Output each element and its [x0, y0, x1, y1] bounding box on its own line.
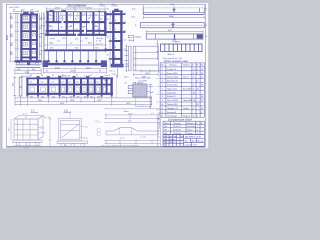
svg-text:24: 24	[197, 88, 199, 90]
svg-text:Петров: Петров	[170, 142, 175, 144]
cabinet base bottom	[16, 67, 41, 69]
svg-text:12: 12	[90, 75, 92, 77]
sheet	[2, 3, 209, 148]
iso2 inner horizontals	[60, 124, 79, 126]
svg-text:Узел 1: Узел 1	[109, 71, 116, 73]
svg-text:дет. 2: дет. 2	[66, 111, 72, 113]
svg-text:6: 6	[197, 116, 198, 118]
cabinet left rail	[20, 14, 22, 62]
svg-text:с2: с2	[32, 64, 34, 66]
iso2 leader	[69, 113, 71, 119]
beam1 center anchor	[173, 8, 175, 12]
svg-text:1:20: 1:20	[193, 145, 197, 147]
svg-text:8: 8	[201, 112, 202, 114]
ladder top cap	[112, 10, 123, 12]
ladder left stub 1	[106, 13, 112, 15]
mid assembly narrow left member	[19, 77, 22, 96]
side view light rectangle	[124, 46, 158, 76]
plan column 4 thick	[92, 12, 94, 36]
cabinet elevation view (left)	[15, 12, 42, 68]
iso1 inner horizontals	[14, 123, 38, 125]
plan column 2 thick	[66, 12, 68, 36]
svg-text:8: 8	[193, 88, 194, 90]
side view narrow member	[129, 46, 131, 71]
svg-text:2: 2	[193, 116, 194, 118]
shelf 2	[20, 30, 38, 32]
svg-text:12: 12	[76, 75, 78, 77]
side view shelf line 3	[133, 64, 158, 66]
svg-text:Наимен.: Наимен.	[183, 65, 191, 67]
svg-text:Утв.: Утв.	[163, 145, 167, 147]
beam 2	[141, 23, 205, 28]
plan column thin	[73, 12, 75, 36]
ladder rung 1	[112, 13, 123, 15]
svg-text:1450: 1450	[126, 103, 130, 105]
svg-text:400: 400	[77, 96, 80, 98]
base foot right	[36, 63, 39, 65]
svg-text:Полоса 40х4: Полоса 40х4	[167, 77, 178, 79]
shelf 1	[20, 21, 38, 23]
spec table column lines	[165, 63, 167, 117]
svg-text:Масса: Масса	[192, 140, 197, 142]
cabinet mid foot tab	[27, 63, 30, 65]
svg-text:1200: 1200	[97, 100, 101, 102]
svg-text:Планка 300: Планка 300	[167, 104, 177, 106]
beam 3	[146, 30, 203, 39]
spec table header text	[161, 65, 204, 67]
ladder rung 2	[112, 22, 123, 24]
isometric detail 2	[57, 113, 88, 147]
iso2 circles detail	[96, 122, 101, 136]
bottom rail end blocks	[43, 60, 48, 67]
ladder tiny labels	[106, 13, 129, 76]
comb bottom labels	[163, 53, 183, 60]
cabinet left dimension chain	[9, 13, 21, 62]
svg-text:М2: М2	[165, 130, 168, 132]
svg-text:Пр.: Пр.	[201, 65, 204, 67]
cabinet right tiny labels	[39, 17, 43, 57]
cabinet under-bench tiny text	[21, 64, 34, 66]
svg-text:Обознач.: Обознач.	[173, 123, 181, 125]
svg-text:Стеллаж: Стеллаж	[187, 126, 195, 128]
lower white rect under hatch	[136, 97, 150, 107]
mid assembly columns	[26, 77, 28, 95]
svg-text:Масса табл. Мих: Масса табл. Мих	[135, 78, 151, 80]
svg-text:Полка: Полка	[187, 130, 193, 132]
mid assembly bay marks	[30, 82, 105, 84]
side view labels	[136, 37, 147, 79]
mid assembly dashed break line	[116, 76, 118, 97]
svg-text:9: 9	[162, 100, 163, 102]
iso1 inner verticals	[17, 119, 19, 140]
ladder top tab	[114, 9, 118, 11]
iso2 inner box	[60, 120, 79, 139]
center plan view top dim labels	[47, 8, 101, 13]
svg-text:10: 10	[193, 100, 195, 102]
specification table	[160, 63, 204, 117]
svg-text:10: 10	[161, 104, 163, 106]
svg-text:Балка 2050: Балка 2050	[167, 73, 177, 75]
svg-text:Поз.: Поз.	[161, 65, 165, 67]
svg-text:8: 8	[162, 96, 163, 98]
svg-text:с1: с1	[21, 64, 23, 66]
hatch square right dim	[149, 84, 152, 109]
iso1 leader lines	[26, 115, 45, 133]
svg-text:25: 25	[201, 77, 203, 79]
svg-text:Пластина 8 об. 12У: Пластина 8 об. 12У	[163, 58, 183, 60]
beam1 dim line	[143, 16, 204, 19]
mid assembly feet tabs	[26, 95, 112, 97]
title block left grid verticals	[165, 135, 167, 147]
hanging studs	[49, 51, 96, 61]
svg-text:Шайба 12: Шайба 12	[167, 95, 176, 98]
svg-text:4: 4	[193, 108, 194, 110]
hatch square	[133, 84, 147, 97]
svg-text:Полка 850: Полка 850	[183, 100, 192, 102]
svg-text:12: 12	[30, 75, 32, 77]
iso2 diagonal	[62, 124, 80, 138]
ladder rung 4	[112, 40, 123, 42]
title block left strip	[158, 119, 161, 147]
svg-text:400: 400	[84, 96, 87, 98]
beam profile labels	[120, 137, 147, 140]
center plan view outline and rails	[45, 10, 106, 36]
plan column thin 2	[85, 12, 87, 36]
svg-text:1: 1	[197, 126, 198, 128]
lower long thin line	[104, 108, 160, 110]
svg-text:12: 12	[161, 112, 163, 114]
beam1 end ticks	[142, 5, 144, 8]
drawing frame	[6, 4, 205, 146]
svg-text:2: 2	[193, 85, 194, 87]
svg-text:6: 6	[162, 88, 163, 90]
comb left dim	[156, 40, 159, 60]
hatch square caption	[124, 77, 151, 85]
center plan view: top dimension line	[46, 7, 105, 11]
svg-text:12: 12	[41, 75, 43, 77]
base foot left	[17, 63, 20, 65]
svg-text:Дата: Дата	[180, 136, 184, 138]
mid assembly right label cluster	[105, 80, 109, 82]
iso1 front face	[14, 119, 38, 140]
svg-text:4250: 4250	[7, 34, 9, 40]
ladder left rail	[112, 11, 114, 67]
cabinet right dim line	[43, 13, 45, 62]
plan lower rail	[43, 50, 107, 67]
bottom-center line pair 1	[105, 114, 159, 120]
cabinet inner block dots	[25, 18, 26, 54]
ladder bottom block	[111, 64, 124, 68]
svg-text:Лит.: Лит.	[185, 140, 189, 142]
svg-text:7: 7	[162, 92, 163, 94]
iso1 left dim	[10, 119, 12, 140]
svg-text:Обознач.: Обознач.	[169, 65, 177, 67]
plan rail C bottom	[45, 34, 76, 36]
side view bottom dim line	[133, 73, 158, 75]
svg-text:400: 400	[70, 96, 73, 98]
iso1 right face	[38, 116, 43, 141]
svg-text:Наимен.: Наимен.	[187, 123, 195, 125]
ladder rung 6	[112, 58, 123, 60]
svg-text:36: 36	[201, 100, 203, 102]
ladder rung 3	[112, 31, 123, 33]
cabinet bench top	[15, 60, 42, 62]
svg-text:12: 12	[62, 75, 64, 77]
svg-text:СБ 01.01: СБ 01.01	[173, 126, 181, 128]
cabinet top tab	[23, 12, 28, 14]
svg-text:Ребро 5: Ребро 5	[183, 116, 190, 118]
side view body	[133, 46, 158, 71]
plan column 3 thick	[80, 12, 82, 36]
svg-text:М1: М1	[165, 126, 168, 128]
plan column thin 3	[98, 12, 100, 36]
title block right cells	[184, 138, 205, 140]
section label 1-1	[31, 110, 68, 113]
ladder left dim line	[109, 11, 111, 68]
svg-text:мест.: мест.	[124, 77, 129, 79]
svg-text:3: 3	[162, 77, 163, 79]
cabinet right rail	[36, 14, 38, 61]
spec table outside row marks	[156, 71, 159, 110]
cabinet base labels	[17, 69, 36, 78]
cabinet dimension labels left	[7, 14, 14, 55]
beam3 right tiny labels	[205, 9, 208, 39]
title block left grid horizontals	[163, 136, 184, 138]
svg-text:см. л.2: см. л.2	[96, 43, 103, 45]
svg-text:Труба 25х2: Труба 25х2	[167, 88, 177, 90]
plan inner tiny labels row1	[49, 13, 104, 31]
mid assembly mid rail	[27, 84, 112, 86]
svg-text:СБ 01.02: СБ 01.02	[173, 130, 181, 132]
thin mid line	[45, 44, 107, 46]
svg-text:Марка: Марка	[164, 123, 171, 125]
plan bay shelf marks	[49, 16, 99, 27]
mid assembly left dim	[13, 76, 16, 96]
iso1 top face	[14, 116, 43, 120]
side view shelf line 1	[133, 52, 158, 54]
summary table text	[164, 123, 203, 135]
plan top edge	[46, 11, 106, 13]
ladder left stub 3	[106, 49, 112, 51]
bottom-center line pair 3	[105, 140, 161, 145]
cabinet base dimension lines	[15, 69, 42, 75]
svg-text:600: 600	[52, 96, 55, 98]
shelf 5	[20, 56, 38, 58]
ladder stub block 3	[105, 49, 107, 52]
svg-text:Уголок 50х5: Уголок 50х5	[167, 85, 177, 87]
ladder top-left tiny labels	[100, 4, 116, 10]
svg-text:Опора: Опора	[183, 108, 190, 110]
main title block	[163, 135, 204, 147]
svg-text:Расчет сечений и нагр.: Расчет сечений и нагр.	[164, 60, 189, 63]
cabinet top second tab	[30, 12, 33, 14]
svg-text:11: 11	[161, 108, 163, 110]
svg-text:1 пог.: 1 пог.	[140, 104, 145, 106]
bottom rail	[43, 63, 107, 66]
mid assembly bottom rail	[26, 93, 113, 95]
plan rail B	[46, 30, 84, 32]
svg-text:Узел А: Узел А	[96, 37, 103, 40]
iso2 outer box	[59, 119, 82, 141]
comb plate bar	[161, 44, 202, 52]
mid assembly main frame	[26, 77, 113, 95]
svg-text:2: 2	[193, 69, 194, 71]
side view caption block	[141, 70, 159, 73]
hatch square left flange 1	[128, 85, 133, 88]
svg-text:Стеллаж: Стеллаж	[185, 145, 193, 147]
sheet title "Узел разреза"	[67, 3, 87, 7]
ladder stub block 1	[105, 13, 107, 16]
svg-text:8: 8	[197, 73, 198, 75]
cabinet base line	[16, 64, 41, 66]
svg-text:Вид В: Вид В	[136, 37, 142, 39]
svg-text:анкер: анкер	[50, 38, 56, 40]
iso1 labels	[8, 113, 51, 149]
svg-text:отм. 4.250: отм. 4.250	[9, 7, 20, 9]
iso2 leader lines	[80, 126, 85, 138]
cabinet inner shelf blocks	[23, 16, 35, 54]
svg-text:Болт М12: Болт М12	[183, 88, 191, 90]
isometric detail 1	[11, 116, 43, 146]
stud feet	[48, 60, 97, 62]
svg-text:1800: 1800	[38, 100, 42, 102]
svg-text:400: 400	[62, 96, 65, 98]
svg-text:Лист 4: Лист 4	[183, 77, 189, 79]
title block texts	[163, 136, 204, 147]
iso2 labels	[64, 111, 89, 146]
side view left band	[135, 46, 137, 71]
hatch square left flange 2	[128, 90, 133, 93]
spec table row lines	[160, 66, 204, 68]
svg-text:6: 6	[197, 130, 198, 132]
line pair 1 labels	[128, 113, 155, 123]
mid assembly top rail	[26, 77, 113, 79]
plan right text cluster	[96, 37, 103, 46]
beams small left marks	[131, 9, 137, 27]
plan lower connecting verticals	[45, 36, 107, 49]
svg-text:Узел разреза: Узел разреза	[67, 3, 86, 7]
svg-text:Подп. дата: Подп. дата	[158, 120, 160, 129]
plan bottom dimension lines	[43, 67, 107, 74]
ladder column assembly	[105, 9, 126, 68]
svg-text:Швеллер 10: Швеллер 10	[167, 81, 178, 83]
svg-text:Иванов: Иванов	[170, 139, 176, 141]
ladder right stubs	[123, 13, 126, 15]
svg-text:дет. 1: дет. 1	[23, 113, 29, 115]
svg-text:12: 12	[197, 104, 199, 106]
svg-text:400: 400	[97, 96, 100, 98]
mid assembly bottom dim labels	[30, 96, 130, 105]
mid assembly top tabs	[36, 76, 103, 77]
inter-iso dimension line	[49, 117, 52, 146]
svg-text:4: 4	[197, 69, 198, 71]
hatch right tiny labels	[151, 86, 154, 94]
svg-text:18: 18	[201, 73, 203, 75]
svg-text:18: 18	[201, 85, 203, 87]
iso2 base platform	[57, 141, 88, 144]
ladder left stub 2	[106, 31, 112, 33]
svg-text:Стойка 25: Стойка 25	[167, 68, 176, 71]
svg-text:1: 1	[162, 69, 163, 71]
svg-text:48: 48	[201, 96, 203, 98]
svg-text:2: 2	[162, 73, 163, 75]
svg-text:13: 13	[161, 116, 163, 118]
svg-text:1 : 25: 1 : 25	[96, 41, 102, 43]
svg-text:600: 600	[30, 96, 33, 98]
dim line between ladder and side view	[125, 44, 128, 72]
cabinet top dim line	[13, 10, 39, 13]
svg-text:Масшт.: Масшт.	[198, 140, 204, 142]
plan left dimension column	[40, 12, 46, 65]
svg-text:600: 600	[41, 96, 44, 98]
plan bottom labels	[46, 67, 102, 77]
page background	[0, 0, 211, 152]
svg-text:АхБ х2: АхБ х2	[168, 53, 176, 56]
svg-text:Подп: Подп	[173, 136, 177, 138]
plan mid tiny labels	[50, 38, 100, 50]
ladder bottom leader arrow	[117, 68, 119, 78]
svg-text:h=120: h=120	[141, 137, 148, 139]
plan top tabs	[50, 10, 55, 12]
svg-text:Электроды: Электроды	[167, 116, 177, 118]
ladder short stubs	[109, 22, 112, 24]
svg-text:1:10: 1:10	[105, 77, 109, 79]
svg-text:Разр.: Разр.	[163, 139, 167, 141]
spec table body text	[161, 68, 203, 118]
shelf 3	[20, 39, 38, 41]
svg-text:вып. лист 1 формат А1 изм. 0: вып. лист 1 формат А1 изм. 0 копировал	[101, 144, 140, 147]
cabinet mid rail	[29, 14, 31, 61]
svg-text:12: 12	[201, 69, 203, 71]
svg-text:2400: 2400	[70, 100, 74, 102]
plan right column	[104, 12, 106, 36]
mid assembly bottom dimension chains	[15, 97, 152, 106]
svg-text:5: 5	[162, 85, 163, 87]
svg-text:АхБ: АхБ	[173, 39, 177, 42]
comb top bracket	[172, 41, 180, 44]
cabinet top cap	[20, 14, 38, 16]
plan left column	[46, 12, 48, 36]
svg-text:д. 2: д. 2	[96, 120, 99, 122]
svg-text:д.6: д.6	[151, 92, 154, 94]
svg-text:д.5: д.5	[151, 86, 154, 88]
mid assembly left dim labels	[12, 82, 14, 86]
svg-text:14: 14	[201, 108, 203, 110]
svg-text:Пров.: Пров.	[163, 142, 168, 144]
frame bottom thick line	[6, 146, 205, 148]
mid assembly top tiny labels	[30, 75, 110, 79]
bottom-center line 2	[105, 121, 161, 123]
beam profile	[106, 128, 159, 135]
plan top band thin shelf lines	[49, 12, 105, 17]
beam 1 (top right, dashed top)	[143, 5, 204, 15]
title block left strip text	[158, 111, 160, 129]
svg-text:24: 24	[193, 92, 195, 94]
ladder rung 5	[112, 49, 123, 51]
cabinet top labels	[9, 7, 34, 12]
svg-text:6: 6	[197, 81, 198, 83]
ladder stub block 2	[105, 31, 107, 34]
side view shelf line 2	[133, 58, 158, 60]
side view top bracket + label	[128, 35, 134, 41]
beam3 dim line above	[146, 31, 203, 33]
plan rail A	[46, 21, 62, 23]
svg-text:12: 12	[52, 75, 54, 77]
summary table	[163, 121, 204, 134]
svg-text:Лист 2х1250: Лист 2х1250	[167, 100, 178, 102]
svg-text:4: 4	[193, 77, 194, 79]
svg-text:Профиль 20: Профиль 20	[167, 107, 178, 110]
